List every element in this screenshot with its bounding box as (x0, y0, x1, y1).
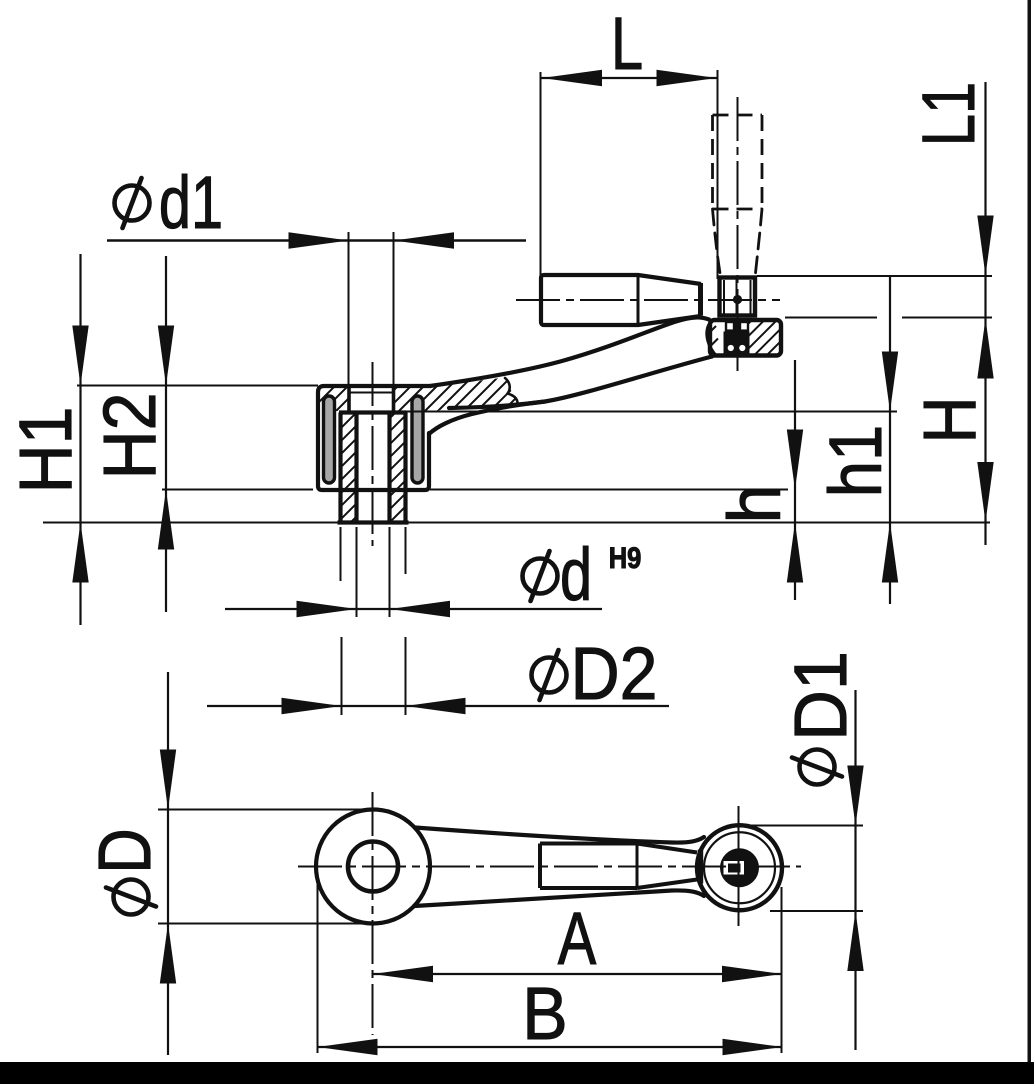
dimension H1 line (79, 254, 81, 625)
dimension h1 arrow top (882, 352, 898, 412)
arm section break (wavy line with step) (505, 378, 518, 403)
folded grip top edge (phantom) (713, 114, 763, 117)
hub boss right wall (403, 413, 407, 522)
boss shoulder bar (plan) (698, 850, 703, 884)
svg-text:L: L (611, 3, 643, 86)
hatch: hub boss section bands (339, 411, 407, 523)
detent white square right (740, 322, 748, 331)
grip centerline (horizontal) (516, 299, 780, 301)
ref line flange bottom left (162, 489, 313, 491)
ref line boss bottom tangent (ØD1) (770, 910, 863, 912)
dimension ØD arrow bottom (160, 924, 176, 984)
grip taper bottom (plan) (637, 880, 697, 889)
ref line grip bottom (H) a (785, 317, 877, 319)
hub circle (plan) (316, 810, 430, 924)
dimension L ext line right (717, 70, 719, 279)
ref line flange bottom right (h) (430, 489, 788, 491)
pivot block inner line right (750, 280, 752, 314)
dimension Ød1 arrow left (289, 232, 349, 248)
dimension L arrow right (657, 70, 717, 86)
ref line grip top (L1/H) (757, 275, 992, 277)
dimension H2 arrow top (158, 326, 174, 386)
dimension H2 arrow bottom (158, 490, 174, 550)
dimension ØD2 ext right (405, 637, 407, 715)
svg-text:d1: d1 (159, 162, 223, 245)
hub bore left wall (354, 413, 358, 522)
svg-text:H1: H1 (5, 406, 87, 493)
handle boss outer circle (plan) (697, 825, 782, 910)
arm top outline (plan) (415, 828, 704, 843)
ref line boss top (h1) (407, 411, 898, 413)
hub flange body (side view section) (318, 386, 430, 490)
dimension Ød arrow left (297, 601, 357, 617)
hatch: flange top-right band and arm root wedge (391, 374, 519, 412)
dimension L line (541, 77, 717, 79)
dimension Ød ext left (356, 527, 358, 617)
grip screw core black (plan) (728, 864, 741, 873)
dimension ØD1 arrow top (847, 766, 863, 826)
svg-text:H: H (908, 396, 991, 443)
dimension ØD2 symbol (532, 658, 567, 693)
arm bottom outline (plan) (414, 890, 704, 906)
retainer block outline (710, 320, 781, 356)
dimension ØD line (167, 672, 169, 1055)
hatch: flange top-left band (318, 384, 350, 414)
dimension B ext left (317, 875, 319, 1053)
dimension ØD symbol (106, 880, 156, 915)
arm top edge (430, 317, 709, 386)
svg-text:D: D (83, 828, 166, 873)
dimension ØD2 arrow left (282, 698, 342, 714)
dimension ØD arrow top (160, 750, 176, 810)
grip outline bottom (plan) (540, 886, 637, 890)
drawing frame right border (1028, 0, 1032, 1063)
detent ball highlight left (728, 345, 734, 351)
dimension L1 arrow (977, 216, 993, 276)
svg-text:D2: D2 (570, 633, 657, 715)
dimension B arrow right (723, 1039, 783, 1055)
dimension L arrow left (542, 70, 602, 86)
svg-text:L1: L1 (908, 82, 991, 146)
boss centerline vertical (plan) (738, 806, 740, 926)
ref line mounting face (43, 522, 990, 524)
socket sliver hatch b (709, 339, 719, 349)
hub boss top edge (339, 410, 407, 414)
arm underside fillet to flange (429, 402, 545, 435)
detent mechanism black body (724, 322, 750, 355)
grip taper top (638, 275, 701, 284)
dimension Ød1 symbol (115, 186, 150, 221)
svg-text:H9: H9 (609, 541, 642, 574)
svg-text:D1: D1 (780, 651, 862, 741)
dimension Ød symbol (523, 559, 558, 594)
dimension Ød1 ext right (393, 232, 395, 387)
ref line hub bottom tangent (ØD) (158, 923, 367, 925)
dimension A arrow right (722, 966, 782, 982)
dimension h arrow top (787, 430, 803, 490)
grip end joint line (637, 275, 640, 325)
dimension Ød1 line (107, 239, 526, 241)
svg-text:A: A (558, 898, 597, 981)
dimension Ød1 arrow right (394, 232, 454, 248)
dimension ØD1 symbol (792, 750, 842, 785)
folded grip left edge (phantom) (711, 115, 714, 209)
pivot block center line (736, 279, 738, 315)
retainer ball socket arc (707, 322, 716, 356)
bottom black bar (0, 1062, 1034, 1084)
svg-text:h: h (714, 484, 796, 523)
ref line flange top left (77, 385, 318, 387)
hub bore circle (plan) (348, 842, 398, 892)
pivot block inner line left (723, 280, 725, 314)
dimension ØD1 line (854, 690, 856, 1050)
dimension A line (373, 973, 783, 975)
flange slot left (grip ring groove) (324, 396, 335, 483)
hub boss bottom edge (338, 520, 409, 524)
dimension ØD2 line (207, 705, 669, 707)
folded grip taper left (phantom) (713, 209, 721, 273)
grip outline left edge (plan) (538, 844, 542, 889)
folded grip joint line (phantom) (713, 208, 763, 211)
dimension Ød1 ext left (348, 232, 350, 387)
hub centerline vertical (plan, A ext) (372, 792, 374, 1035)
detent white square left (726, 322, 734, 331)
dimension Ød H9 line (225, 608, 602, 610)
hub top recess right wall (392, 387, 396, 412)
ref line grip bottom (H) b (902, 317, 992, 319)
dimension ØD1 arrow bottom (847, 911, 863, 971)
dimension h1 arrow bottom (882, 523, 898, 583)
hub top recess bottom line (349, 391, 394, 393)
dimension H1 arrow top (72, 326, 88, 386)
hub centerline horizontal (plan) (298, 866, 801, 868)
grip cylinder (side view) (541, 275, 638, 325)
pivot axis centerline (vertical) (737, 97, 739, 371)
flange slot right (grip ring groove) (412, 396, 423, 483)
ref line boss top tangent (ØD1) (745, 825, 863, 827)
grip neck end face (698, 283, 703, 316)
dimension A/B ext right (781, 887, 783, 1053)
dimension A arrow left (373, 966, 433, 982)
dimension h1 line (889, 277, 891, 604)
detent ball highlight right (739, 345, 745, 351)
grip taper top (plan) (637, 844, 697, 853)
dimension L ext line left (540, 72, 542, 276)
dimension H arrow top (977, 319, 993, 379)
dimension H arrow bottom (977, 462, 993, 522)
pivot pin dot (733, 295, 742, 304)
dimension ØD2 arrow right (406, 698, 466, 714)
grip joint line (plan) (636, 844, 639, 889)
dimension h arrow bottom (787, 523, 803, 583)
svg-text:h1: h1 (814, 425, 897, 497)
dimension H1 arrow bottom (72, 523, 88, 583)
dimension ØD2 ext left (341, 637, 343, 715)
dimension h line (794, 360, 796, 600)
svg-text:B: B (522, 973, 567, 1055)
folded grip taper right (phantom) (756, 209, 763, 273)
bore centerline (vertical) (372, 362, 374, 546)
dimension B arrow left (318, 1039, 378, 1055)
ref line hub top tangent (ØD) (158, 809, 362, 811)
grip outline top (plan) (540, 842, 637, 846)
boss ext stub left (340, 527, 342, 581)
hatch: grip retainer block right part (747, 319, 781, 356)
grip pivot block (720, 278, 756, 316)
hub bore right wall (387, 413, 391, 522)
socket sliver hatch a (708, 326, 716, 334)
grip taper bottom (638, 316, 701, 325)
grip screw black disc (plan) (720, 848, 759, 887)
dimension H2 line (165, 256, 167, 612)
dimension L1/H line (984, 82, 986, 545)
dimension B line (318, 1046, 783, 1048)
svg-text:H2: H2 (89, 392, 171, 479)
arm bottom edge (449, 357, 712, 409)
folded grip right edge (phantom) (761, 115, 764, 209)
dimension Ød ext right (389, 527, 391, 617)
boss ext stub right (405, 527, 407, 574)
hub boss left wall (338, 413, 342, 522)
handle boss inner circle (plan) (704, 832, 775, 903)
hub top recess left wall (347, 387, 351, 412)
svg-text:d: d (560, 534, 592, 617)
grip screw slot white (plan) (724, 861, 745, 875)
dimension Ød arrow right (390, 601, 450, 617)
